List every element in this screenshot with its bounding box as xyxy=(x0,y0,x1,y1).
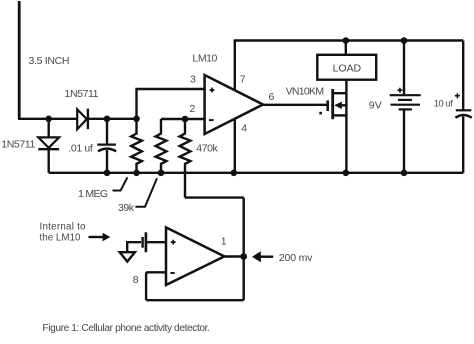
node bottom R2 xyxy=(158,170,165,177)
battery wire bottom xyxy=(403,109,405,172)
node A3 xyxy=(133,116,140,123)
leader 39k xyxy=(135,178,157,207)
op-amp U2 triangle xyxy=(166,227,224,285)
reference cell long bar xyxy=(145,232,148,252)
svg-text:1: 1 xyxy=(221,236,227,248)
svg-text:10 uf: 10 uf xyxy=(434,98,453,109)
pin 7 riser xyxy=(234,41,236,91)
node A1 xyxy=(45,116,52,123)
mosfet Q1 channel bar xyxy=(331,89,334,119)
reference cell wire left to ground xyxy=(127,242,141,252)
leader 1 MEG xyxy=(113,177,128,190)
wire load bottom / source vertical xyxy=(345,80,347,173)
node battery bottom xyxy=(401,170,408,177)
svg-text:1 MEG: 1 MEG xyxy=(78,188,108,200)
wire riser to pin3 xyxy=(137,89,205,119)
feedback minus wire xyxy=(146,271,166,273)
node U2 out xyxy=(240,253,247,260)
battery plates xyxy=(390,94,421,96)
svg-text:Figure 1: Cellular phone activ: Figure 1: Cellular phone activity detect… xyxy=(42,323,210,334)
battery B1 wire top xyxy=(403,41,405,96)
svg-text:3: 3 xyxy=(190,73,196,85)
svg-text:LM10: LM10 xyxy=(192,52,217,64)
C2 flat plate xyxy=(456,109,472,111)
svg-text:6: 6 xyxy=(269,91,275,103)
node top load xyxy=(343,37,350,44)
node bottom R1 xyxy=(133,170,140,177)
pin 4 drop xyxy=(234,119,236,173)
wire input rail left xyxy=(18,118,77,120)
node A2 xyxy=(104,116,111,123)
node mosfet source bottom xyxy=(343,170,350,177)
svg-text:7: 7 xyxy=(240,73,246,85)
wire reference vertical xyxy=(242,198,244,301)
op-amp U1 LM10 xyxy=(205,75,263,134)
mosfet arrow stub xyxy=(340,104,347,106)
svg-text:39k: 39k xyxy=(118,202,135,214)
svg-text:3.5 INCH: 3.5 INCH xyxy=(29,55,70,67)
C2 plus xyxy=(455,93,460,98)
wire pin2 xyxy=(161,118,205,120)
svg-text:9 V: 9 V xyxy=(369,100,382,112)
antenna wire xyxy=(18,1,21,119)
capacitor C1 .01uf xyxy=(106,119,108,145)
svg-text:1N5711: 1N5711 xyxy=(1,138,35,150)
mosfet drain stub xyxy=(333,92,347,94)
node bottom pin4 xyxy=(231,170,238,177)
arrow internal xyxy=(89,236,105,238)
svg-text:8: 8 xyxy=(133,274,139,286)
svg-text:4: 4 xyxy=(241,123,247,135)
bottom rail xyxy=(49,172,464,174)
svg-text:1N5711: 1N5711 xyxy=(65,88,99,100)
node B1 xyxy=(182,116,189,123)
svg-text:470k: 470k xyxy=(196,142,218,154)
mosfet source stub xyxy=(333,114,347,116)
svg-text:the LM10: the LM10 xyxy=(40,232,82,243)
diode D1 1N5711 horizontal xyxy=(77,109,87,129)
wire 470k horizontal xyxy=(185,196,244,198)
stray dot xyxy=(319,112,322,115)
LOAD box xyxy=(317,55,376,80)
wire 470k bottom lead xyxy=(184,173,186,198)
reference cell short bar xyxy=(141,237,143,248)
wire input rail right xyxy=(88,118,137,120)
resistor R2 39k xyxy=(156,119,167,173)
mosfet Q1 gate bar xyxy=(326,100,329,111)
svg-text:Internal to: Internal to xyxy=(40,222,87,233)
svg-text:LOAD: LOAD xyxy=(333,62,362,74)
arrow 200 mv xyxy=(258,256,273,258)
svg-text:200 mv: 200 mv xyxy=(279,252,313,264)
capacitor C2 10uf right vertical top xyxy=(462,41,464,111)
output wire pin 6 xyxy=(263,104,327,106)
diode D2 1N5711 vertical xyxy=(48,119,50,138)
svg-text:2: 2 xyxy=(190,103,196,115)
node battery top xyxy=(401,37,408,44)
reference cell wire right xyxy=(147,241,166,243)
top rail xyxy=(234,39,464,41)
resistor R3 470k xyxy=(180,119,191,173)
wire load top xyxy=(345,41,347,55)
svg-text:.01 uf: .01 uf xyxy=(68,142,93,154)
C2 wire bottom xyxy=(462,116,464,172)
U2 output wire xyxy=(224,255,243,257)
feedback bottom wire xyxy=(146,299,244,301)
battery plus xyxy=(397,88,402,93)
C2 curved plate xyxy=(455,115,471,118)
svg-text:VN10KM: VN10KM xyxy=(286,85,325,97)
resistor R1 1 MEG xyxy=(131,119,142,173)
node bottom C1 xyxy=(104,170,111,177)
feedback riser xyxy=(145,272,147,300)
ground symbol xyxy=(120,252,135,261)
